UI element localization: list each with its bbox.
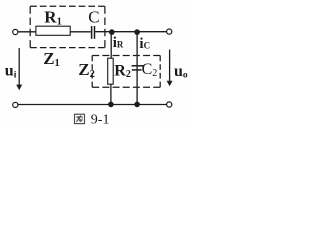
capacitor C plates	[91, 26, 93, 39]
svg-text:R1: R1	[44, 7, 62, 27]
wire node B down through C2 to bottom rail	[136, 32, 138, 105]
svg-text:Z1: Z1	[43, 49, 60, 69]
svg-text:C2: C2	[142, 61, 158, 79]
wire top rail right segment	[95, 31, 166, 33]
arrow u_i	[18, 48, 20, 86]
terminal top-left	[13, 29, 18, 34]
box Z1 dashed	[30, 6, 105, 47]
wire top rail left segment	[18, 31, 37, 33]
caption glyph 图	[75, 114, 85, 123]
wire R1 to C	[70, 31, 91, 33]
node bottom right	[134, 102, 140, 108]
svg-text:R2: R2	[114, 62, 131, 80]
capacitor C2 plates	[132, 65, 144, 67]
resistor R2	[108, 58, 114, 84]
node B	[134, 29, 140, 35]
box Z2 dashed	[92, 56, 160, 88]
svg-text:Z2: Z2	[78, 60, 95, 80]
terminal top-right	[167, 29, 172, 34]
wire bottom rail	[18, 104, 167, 106]
svg-text:iC: iC	[139, 36, 150, 52]
arrowhead u_o	[167, 81, 173, 87]
node bottom left	[108, 102, 114, 108]
node A	[109, 29, 115, 35]
arrow u_o	[169, 50, 171, 83]
arrowhead u_i	[16, 85, 22, 91]
resistor R1	[36, 26, 70, 35]
terminal bottom-left	[13, 102, 18, 107]
svg-text:uo: uo	[174, 63, 188, 81]
wire R2 to bottom rail	[110, 84, 112, 104]
terminal bottom-right	[167, 102, 172, 107]
svg-text:C: C	[88, 8, 99, 27]
svg-text:iR: iR	[113, 35, 124, 51]
svg-text:ui: ui	[5, 63, 17, 81]
svg-text:9-1: 9-1	[91, 113, 110, 127]
wire node A down to R2	[110, 32, 112, 59]
